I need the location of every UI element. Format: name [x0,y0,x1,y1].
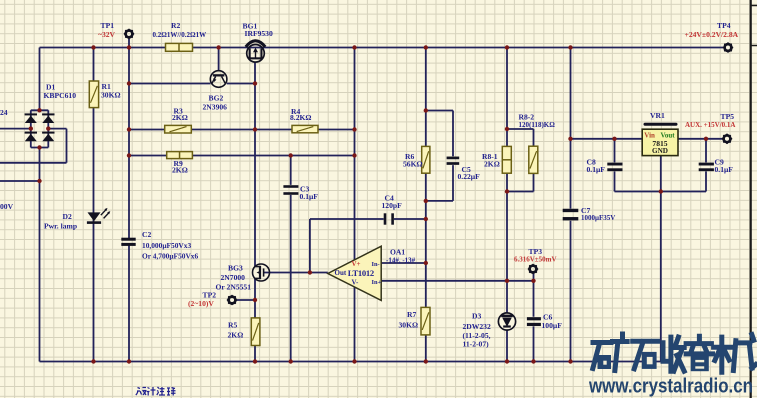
junction bridge positive node [37,108,41,112]
svg-text:D3: D3 [472,312,481,321]
test point TP3 [528,264,539,275]
svg-text:Pwr. lamp: Pwr. lamp [44,221,77,230]
capacitor C8 0.1uF [607,163,622,166]
svg-text:(2~10)V: (2~10)V [188,299,214,308]
junction R3 row right [352,127,356,131]
svg-text:6.316V±50mV: 6.316V±50mV [514,255,557,263]
junction rail BG2 emitter tap [216,45,220,49]
junction feedback tap [308,270,312,274]
capacitor C4 120pF [384,213,387,224]
wire TP2 stub [237,299,255,301]
wire TP1 stub and C2 branch [128,39,130,362]
resistor R3 2K [165,125,192,133]
op-amp OA1 LT1012 [328,246,381,300]
svg-text:0.22μF: 0.22μF [458,172,481,181]
svg-text:V+: V+ [352,260,361,268]
wire C5 stub bottom [426,165,453,201]
wire op-amp In- [381,262,426,264]
wire R9 row [129,155,355,157]
wire C5 stub top [426,111,453,157]
svg-text:AUX. +15V/0.1A: AUX. +15V/0.1A [685,121,735,129]
capacitor C7 1000uF [563,209,579,212]
junction rail TP1/C2 tap [127,45,131,49]
junction bus C6 [531,359,535,363]
svg-text:120pF: 120pF [382,201,403,210]
junction C5 top tap [424,108,428,112]
junction In+ TP3/C6 node [531,279,535,283]
junction bus R7 [424,359,428,363]
wire C3 branch [290,156,292,362]
wire R8-2 bottom tap [507,173,534,191]
svg-text:100μF: 100μF [542,321,563,330]
wire ground bus [40,361,662,363]
junction bridge negative node [37,145,41,149]
capacitor C5 0.22uF [447,157,460,160]
svg-text:KBPC610: KBPC610 [44,91,77,100]
wire R8-2 top tap [507,129,534,146]
wire C4 right to x425 [394,218,426,220]
svg-text:V-: V- [352,279,360,287]
junction TP2 node [253,298,257,302]
regulator VR1 7815 [644,123,678,126]
test point TP4 [723,42,734,53]
capacitor C9 0.1uF [699,163,714,166]
junction rail R6 branch [424,45,428,49]
capacitor C3 0.1uF [283,185,298,188]
junction bridge AC left [29,126,33,130]
svg-text:30KΩ: 30KΩ [399,320,419,329]
junction BG1 gate node [253,81,257,85]
resistor R8-2 120K [529,146,538,173]
resistor R1 30K [89,81,98,108]
svg-text:TP5: TP5 [721,112,735,121]
capacitor C6 100uF [527,317,541,320]
junction bus op-amp V- [352,359,356,363]
wire bridge negative down to ground bus [39,148,41,362]
wire +15V aux line [571,138,723,140]
wire rail left drop to bridge [39,48,41,111]
wire AC input 3 [0,180,40,182]
junction bus R1/D2 [91,359,95,363]
resistor R6 56K [422,146,430,173]
svg-text:www.crystalradio.cn: www.crystalradio.cn [588,375,753,398]
svg-text:IRF9530: IRF9530 [245,29,273,38]
junction bridge AC right [46,126,50,130]
wire y83 BG2 to BG1 gate [129,83,255,85]
transistor BG2 2N3906 [210,71,227,88]
junction R9 row left [127,153,131,157]
wire AC input 2 [0,129,67,163]
svg-text:2DW232: 2DW232 [463,322,491,331]
junction rail C7 branch [568,45,572,49]
wire bridge frame [31,110,49,147]
junction aux line C8 tap [612,137,616,141]
resistor R8-1 2K [502,146,511,173]
junction rail V+ branch [352,45,356,49]
junction C5 bottom tap [424,199,428,203]
junction bus R5 [253,359,257,363]
svg-text:R5: R5 [228,321,237,330]
svg-text:1000μF35V: 1000μF35V [581,214,615,222]
svg-text:GND: GND [652,147,668,155]
wire R1/D2 branch [93,48,95,362]
note text sheji zhushi [136,387,176,396]
svg-text:(11-2-05,: (11-2-05, [463,331,491,340]
resistor R2 0.2ohm [166,43,193,51]
svg-text:0.2Ω1W//0.2Ω1W: 0.2Ω1W//0.2Ω1W [153,31,207,39]
svg-text:TP1: TP1 [101,21,115,30]
junction bus C3 [289,359,293,363]
capacitor C2 electrolytic [121,238,135,241]
junction R8-2 top tap [505,127,509,131]
watermark kuangshi shouyinji [593,334,756,372]
junction R9 row right [352,153,356,157]
wire BG3 gate to op-amp out [264,272,328,274]
svg-text:11-2-07): 11-2-07) [463,340,490,349]
junction VR1 gnd C8/C9 node [659,189,663,193]
wire top +32V rail [40,47,724,49]
resistor R4 8.2K [292,125,318,132]
junction bus C7 [568,359,572,363]
resistor R5 2K [251,318,260,346]
svg-text:2KΩ: 2KΩ [484,160,500,169]
junction R3 row left [127,127,131,131]
svg-text:30KΩ: 30KΩ [101,91,121,100]
svg-text:8.2KΩ: 8.2KΩ [290,113,311,122]
svg-text:0.1μF: 0.1μF [715,165,734,174]
wire R3 R4 row [129,129,355,131]
svg-text:0.1μF: 0.1μF [300,192,319,201]
wire C6 branch [533,281,535,362]
junction rail R1 tap [91,45,95,49]
svg-text:00V: 00V [0,202,14,211]
wire C7 branch x570 [570,48,572,362]
svg-text:TP4: TP4 [717,21,731,30]
svg-text:2KΩ: 2KΩ [172,113,188,122]
junction aux line C9 tap [704,137,708,141]
wire V+ branch x354 [354,48,356,260]
svg-text:2KΩ: 2KΩ [228,330,244,339]
test point TP5 [722,134,733,145]
junction bus D3 [505,359,509,363]
svg-text:56KΩ: 56KΩ [403,160,423,169]
wire feedback loop to C4 [310,219,384,273]
svg-text:10,000μF50Vx3: 10,000μF50Vx3 [142,241,191,250]
junction AC input 3 tap [37,179,41,183]
transistor BG3 2N7000 [253,264,270,281]
svg-text:+24V±0.2V/2.8A: +24V±0.2V/2.8A [685,30,739,39]
svg-text:2N7000: 2N7000 [221,273,246,282]
svg-text:Or 2N5551: Or 2N5551 [216,282,252,291]
test point TP1 [124,29,135,40]
svg-text:Or 4,700μF50Vx6: Or 4,700μF50Vx6 [142,251,198,260]
svg-text:In+: In+ [372,279,382,286]
transistor BG1 IRF9530 P-MOSFET [247,45,265,63]
svg-text:0.1μF: 0.1μF [587,165,606,174]
wire BG2 base rail tap [218,48,220,71]
svg-text:LT1012: LT1012 [348,268,374,278]
test point TP2 [227,295,238,306]
bridge rectifier D1 diodes [25,113,37,115]
wire op-amp In+ [381,280,533,282]
svg-text:~32V: ~32V [98,30,116,39]
junction C4 right tap [424,217,428,221]
junction aux line C7 tap [568,137,572,141]
wire x425 branch R6 R7 [425,48,427,362]
wire BG1 gate down, BG3 drain-source branch [254,62,256,361]
svg-text:R7: R7 [407,310,416,319]
svg-text:R2: R2 [171,21,180,30]
wire C8 branch [615,139,661,192]
junction BG2 base wire left [127,81,131,85]
junction R9 row C3 tap [289,153,293,157]
junction In- node [424,261,428,265]
wire op-amp V- to ground [354,286,356,362]
svg-text:OA1: OA1 [390,247,405,256]
svg-text:D2: D2 [63,212,72,221]
wire VR1 ground pin [660,156,662,362]
svg-text:Out: Out [335,269,347,277]
svg-text:VR1: VR1 [650,111,665,120]
sheet border right edge [750,0,752,398]
svg-text:BG3: BG3 [228,263,243,272]
svg-text:C2: C2 [142,230,151,239]
junction In+ D3 node [505,279,509,283]
zener D3 2DW232 [498,313,515,330]
svg-text:-14#, -13#: -14#, -13# [386,256,416,264]
svg-text:2KΩ: 2KΩ [172,166,188,175]
resistor R7 30K [421,307,430,335]
junction R8 bottom node [505,189,509,193]
wire TP3 stub [533,274,535,281]
svg-text:24: 24 [0,108,8,117]
svg-text:BG2: BG2 [209,94,224,103]
junction rail R8 branch [505,45,509,49]
svg-text:In-: In- [372,261,380,268]
wire AC input 1 [0,128,31,130]
resistor R9 2K [167,152,193,159]
wire R8/D3 branch x507 [506,48,508,362]
LED D2 power lamp [88,212,101,221]
wire C9 branch [661,139,706,192]
svg-text:120(118)KΩ: 120(118)KΩ [519,121,556,129]
svg-text:2N3906: 2N3906 [203,102,228,111]
junction R3 row BG3 drain [253,127,257,131]
junction bus C2 [127,359,131,363]
